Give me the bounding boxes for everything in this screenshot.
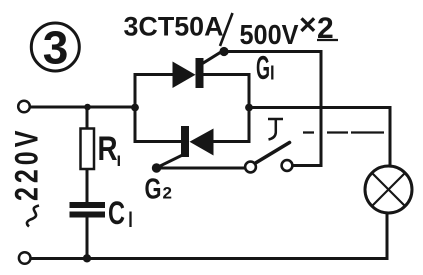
svg-text:×: ×	[299, 9, 317, 42]
svg-text:2: 2	[163, 184, 172, 203]
svg-text:C: C	[108, 195, 125, 231]
svg-text:500V: 500V	[240, 19, 299, 50]
svg-text:3: 3	[43, 22, 69, 74]
svg-text:R: R	[98, 130, 118, 168]
svg-text:G: G	[145, 174, 162, 206]
svg-text:G: G	[256, 49, 270, 86]
svg-text:220V: 220V	[10, 127, 46, 201]
svg-text:3CT50A: 3CT50A	[124, 12, 224, 42]
